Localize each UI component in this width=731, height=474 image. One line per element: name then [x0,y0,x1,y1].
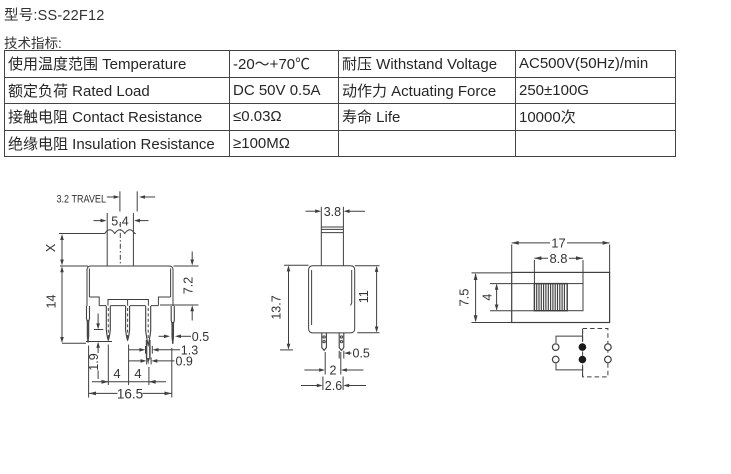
top view outer body [512,272,610,322]
svg-text:11: 11 [357,290,371,303]
dim 2 (pin spacing) [304,352,363,377]
pin 3 (middle contact pin) [126,306,130,340]
title model number [4,4,105,25]
svg-text:X: X [44,243,58,252]
dim 2.6 (outer pin span) [301,377,366,393]
actuator knob sides [107,213,133,266]
svg-text:8.8: 8.8 [549,251,567,266]
svg-text:0.9: 0.9 [176,355,193,369]
svg-text:0.5: 0.5 [192,330,209,344]
dim 1.9 (pin tip step) [86,314,112,380]
body (side view) [309,266,355,333]
break wave line on actuator [59,230,136,234]
svg-text:14: 14 [44,295,58,309]
dim 16.5 (overall width) [89,346,172,402]
dim 0.5 (frame pin width) [159,330,210,344]
slider knob with serrations [534,284,567,311]
dim 14 (body height) [44,266,86,343]
slot opening [534,284,583,311]
actuator centerline (dashed) [119,222,121,265]
left frame mounting pin [87,306,90,343]
dim 11 (body height right) [355,266,380,333]
body bottom edge segments [99,305,158,307]
svg-text:4: 4 [113,366,120,381]
svg-text:3.2 TRAVEL: 3.2 TRAVEL [57,194,107,206]
right frame mounting pin [171,306,174,344]
dim 5.4 [94,214,149,228]
switch body frame (front view) [87,266,173,306]
dim 0.5 (side pin thickness) [339,347,370,361]
dim 1.3 (outer pin width) [129,343,199,357]
dim 3.2 TRAVEL [57,191,156,211]
solid link bottom bracket [556,364,583,377]
svg-text:7.2: 7.2 [182,277,196,294]
body bottom steps [89,297,99,306]
dim 4 (slot width) [481,284,535,311]
subtitle technical specs [4,32,62,52]
inner plateau line [108,300,148,306]
dim 13.7 (left overall height) [270,265,309,350]
terminal circles middle column (filled common) [579,343,587,363]
pin 4 (doubled contact pin front/back) [146,306,151,365]
actuator knob (side) [321,207,343,266]
spec table [4,50,676,157]
svg-text:0.5: 0.5 [353,347,370,361]
svg-text:4: 4 [134,366,141,381]
dim 3.8 [306,205,366,219]
svg-text:2.6: 2.6 [325,379,342,393]
terminal circles row A (open) [552,344,559,363]
terminal schematic: dashed alternate position box [583,329,608,377]
terminal circles right column (open, on dashed edge) [605,344,612,363]
svg-text:7.5: 7.5 [457,288,472,306]
svg-text:16.5: 16.5 [117,386,143,401]
svg-text:2: 2 [330,363,337,377]
dim 4 / 4 (pin pitch) [92,345,166,386]
svg-text:17: 17 [551,236,565,251]
dim 7.5 (body width) [457,273,512,323]
dim 7.2 (right shoulder) [160,252,199,321]
svg-text:3.8: 3.8 [324,205,341,219]
dim 8.8 (slot length) [534,251,583,284]
dim X (knob height above body) [44,234,88,266]
dim 17 (body length) [512,236,610,273]
pin 2 (left contact pin) [106,306,110,340]
side pins [322,333,344,350]
svg-text:4: 4 [481,294,495,301]
solid link top bracket [556,331,583,344]
dim 0.9 (inner pin width) [129,355,193,369]
svg-text:13.7: 13.7 [270,295,284,319]
svg-text:5.4: 5.4 [111,214,128,228]
